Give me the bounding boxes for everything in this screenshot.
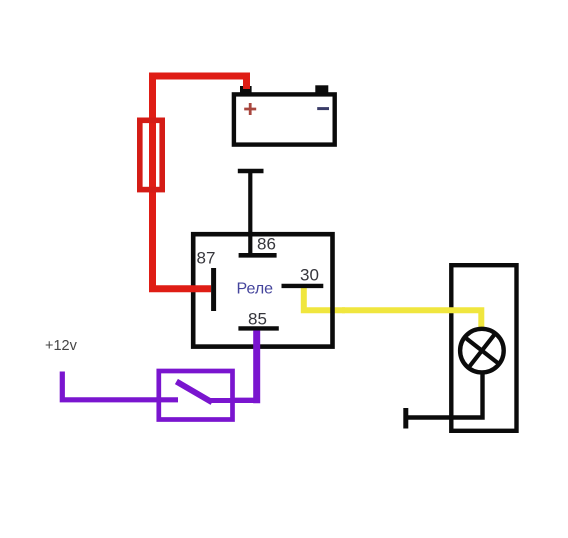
battery minus terminal label [317, 107, 329, 110]
lamp ground terminal bar [403, 408, 408, 429]
lamp L1 box [451, 265, 516, 431]
label 87 [197, 249, 216, 268]
svg-text:85: 85 [248, 310, 267, 329]
relay pin 87 terminal [211, 268, 216, 311]
wire red from battery through fuse to pin 87 [149, 76, 247, 289]
svg-text:87: 87 [197, 249, 216, 268]
wire purple from +12v stub to switch [62, 372, 178, 400]
label +12v [45, 338, 78, 354]
fuse F1 [140, 120, 162, 189]
relay pin 30 terminal [282, 284, 324, 288]
switch S1 box [159, 371, 233, 420]
label 85 [248, 310, 267, 329]
svg-text:+12v: +12v [45, 338, 78, 354]
relay pin 85 terminal [238, 326, 278, 330]
wire yellow to lamp [342, 310, 481, 327]
label 30 [300, 266, 319, 285]
svg-text:Реле: Реле [237, 281, 274, 298]
relay pin 86 external lead with T terminal [238, 171, 277, 255]
switch S1 blade [179, 383, 210, 401]
switch S1 right contact stub [210, 398, 236, 403]
battery B1 [234, 85, 335, 144]
relay K1 box [193, 234, 332, 346]
wire purple from switch to relay pin 85 [233, 331, 257, 404]
relay name label Pele [237, 281, 274, 298]
svg-text:86: 86 [257, 235, 276, 254]
battery plus terminal label [244, 103, 256, 115]
lamp ground lead wire [407, 374, 483, 418]
svg-text:30: 30 [300, 266, 319, 285]
wire yellow from relay pin 30 [304, 288, 345, 310]
lamp L1 bulb symbol [460, 329, 504, 373]
label 86 [257, 235, 276, 254]
